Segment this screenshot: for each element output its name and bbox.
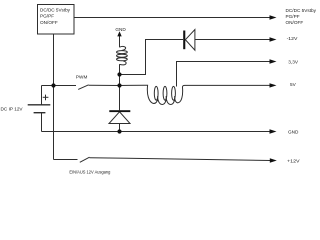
svg-text:5V: 5V <box>290 82 297 87</box>
svg-text:DC/DC 5Vstby: DC/DC 5Vstby <box>40 7 71 12</box>
svg-text:PG/PF: PG/PF <box>40 14 54 19</box>
svg-text:3,3V: 3,3V <box>288 59 299 64</box>
svg-text:GND: GND <box>115 27 126 32</box>
svg-text:DC/DC 5Vstby: DC/DC 5Vstby <box>286 8 317 13</box>
svg-text:PG/PF: PG/PF <box>286 14 300 19</box>
svg-text:-12V: -12V <box>287 36 299 41</box>
svg-text:EIN/AUS 12V Ausgang: EIN/AUS 12V Ausgang <box>69 170 110 175</box>
svg-text:PWM: PWM <box>76 74 88 79</box>
svg-text:+12V: +12V <box>287 158 301 163</box>
svg-text:GND: GND <box>288 129 299 134</box>
svg-text:ON/OFF: ON/OFF <box>40 20 58 25</box>
svg-text:ON/OFF: ON/OFF <box>286 20 304 25</box>
svg-text:DC IP 12V: DC IP 12V <box>1 107 24 112</box>
